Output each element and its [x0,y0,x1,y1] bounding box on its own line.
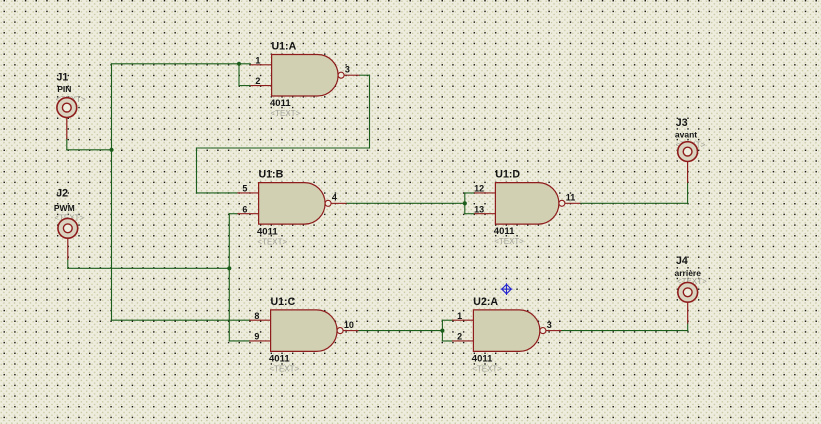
wire vertical bus left [111,64,113,320]
value label 4011 of U1:C [269,354,290,365]
pin 4 output stub of U1:B [331,193,346,204]
svg-text:3: 3 [345,65,350,75]
NAND gate U1:C body [271,310,344,352]
svg-text:PIN: PIN [57,84,71,94]
op-amp label U1:C [271,296,296,308]
svg-text:<TEXT>: <TEXT> [270,109,300,118]
svg-text:4011: 4011 [472,354,493,365]
svg-text:9: 9 [254,332,259,342]
wire to U1:C pin9 [229,340,249,342]
svg-text:U1:A: U1:A [272,40,297,52]
svg-text:J3: J3 [676,117,688,129]
svg-text:4: 4 [332,193,337,203]
svg-text:<TEXT>: <TEXT> [269,365,299,374]
TEXT placeholder of J2 [54,213,84,222]
svg-text:PWM: PWM [54,203,75,213]
wire U1:B pin6 down [228,214,230,269]
junction node at U1:A pin1 [237,62,241,66]
TEXT placeholder of U1:D [494,237,524,246]
value label 4011 of U1:A [270,98,291,109]
connector label J1 [57,72,69,84]
wire J2 to bus [68,267,230,269]
TEXT placeholder of J1 [56,95,86,104]
wire U1:A out left [197,147,370,149]
connector label J3 [676,117,688,129]
wire U2:A out [561,330,687,332]
pin 2 stub of U1:A [250,76,271,86]
value label 4011 of U1:D [494,226,515,237]
svg-text:5: 5 [242,184,247,194]
svg-text:J2: J2 [56,188,68,200]
wire U1:A out down [369,75,371,148]
junction node J1 tap [109,148,113,152]
value label 4011 of U2:A [472,354,493,365]
TEXT placeholder of J4 [677,277,707,286]
pin stub of J2 [67,238,69,260]
wire up to J3 [687,182,689,203]
svg-text:10: 10 [344,320,354,330]
op-amp label U1:B [259,169,284,181]
TEXT placeholder of U1:B [257,237,287,246]
svg-text:4011: 4011 [494,226,515,237]
pin 1 stub of U2:A [452,311,473,321]
origin marker (blue cross) [501,283,513,295]
connector label J4 [676,255,688,267]
wire U1:B out [347,202,465,204]
pin stub of J1 [66,117,68,138]
wire to U2:A pin2 [442,340,452,342]
svg-text:6: 6 [242,204,247,214]
pin stub of J3 [687,161,689,182]
op-amp label U2:A [473,296,498,308]
TEXT placeholder of J3 [676,140,706,149]
TEXT placeholder of U1:C [269,365,299,374]
wire to U1:A pin2 [239,85,250,87]
wire node to U2:A pins vertical [441,320,443,341]
TEXT placeholder of U2:A [472,365,502,374]
op-amp label U1:D [495,169,520,181]
svg-text:4011: 4011 [270,98,291,109]
pin 2 stub of U2:A [452,332,473,342]
pin 5 stub of U1:B [237,184,258,194]
wire U1:C out [359,330,443,332]
pin stub of J4 [687,302,689,323]
pin 10 output stub of U1:C [343,320,358,331]
svg-text:J4: J4 [676,255,688,267]
wire node to U1:A pin2 vertical [238,64,240,86]
svg-text:<TEXT>: <TEXT> [494,237,524,246]
svg-text:4011: 4011 [269,354,290,365]
wire to U1:C pin8 [112,319,250,321]
pin 8 stub of U1:C [249,311,270,321]
wire U1:A out right [360,74,370,76]
svg-text:1: 1 [255,55,260,65]
connector name arrière of J4 [675,268,702,278]
wire node to U1:D pins vertical [464,193,466,214]
connector J4 pad symbol [678,282,698,302]
junction node U1:C out [440,329,444,333]
NAND gate U2:A body [473,310,546,352]
svg-text:1: 1 [457,311,462,321]
op-amp label U1:A [272,40,297,52]
wire up to J4 [687,323,689,331]
wire J1 to bus [67,149,112,151]
svg-text:U1:D: U1:D [495,169,520,181]
svg-text:3: 3 [547,320,552,330]
pin 12 stub of U1:D [474,184,495,194]
svg-text:12: 12 [474,184,484,194]
connector label J2 [56,188,68,200]
pin 3 output stub of U1:A [344,65,359,76]
pin 1 stub of U1:A [250,55,271,65]
svg-text:2: 2 [457,332,462,342]
connector name PWM of J2 [54,203,75,213]
svg-text:avant: avant [675,129,697,139]
pin 9 stub of U1:C [249,332,270,342]
connector J2 pad symbol [58,218,78,238]
connector name avant of J3 [675,129,697,139]
pin 13 stub of U1:D [474,204,495,214]
value label 4011 of U1:B [257,226,278,237]
svg-text:13: 13 [474,204,484,214]
wire U1:A out down2 [196,148,198,193]
wire J1 tail [66,139,68,150]
svg-text:U2:A: U2:A [473,296,498,308]
wire to U1:B pin5 [197,192,238,194]
wire to U1:A pin1 [112,63,251,65]
wire to U1:D pin12 [465,192,474,194]
svg-text:<TEXT>: <TEXT> [257,237,287,246]
pin 3 output stub of U2:A [546,320,561,331]
wire to U1:B pin6 [229,213,237,215]
connector J3 pad symbol [678,142,698,162]
NAND gate U1:B body [259,183,332,225]
wire U1:D out [580,202,687,204]
svg-text:U1:B: U1:B [259,169,284,181]
connector J1 pad symbol [57,98,77,118]
junction node U1:B out [463,201,467,205]
svg-text:U1:C: U1:C [271,296,296,308]
wire to U1:D pin13 [465,213,474,215]
svg-text:2: 2 [255,76,260,86]
wire bus down to pin9 row [228,268,230,341]
svg-text:11: 11 [566,193,576,203]
NAND gate U1:D body [495,183,565,225]
pin 11 output stub of U1:D [565,193,580,204]
junction node J2 tap [227,266,231,270]
svg-text:<TEXT>: <TEXT> [472,365,502,374]
TEXT placeholder of U1:A [270,109,300,118]
connector name PIN of J1 [57,84,71,94]
svg-text:8: 8 [254,311,259,321]
svg-text:4011: 4011 [257,226,278,237]
NAND gate U1:A body [272,55,345,97]
wire J2 tail [67,259,69,268]
svg-text:J1: J1 [57,72,69,84]
wire to U2:A pin1 [442,319,452,321]
pin 6 stub of U1:B [237,204,258,214]
